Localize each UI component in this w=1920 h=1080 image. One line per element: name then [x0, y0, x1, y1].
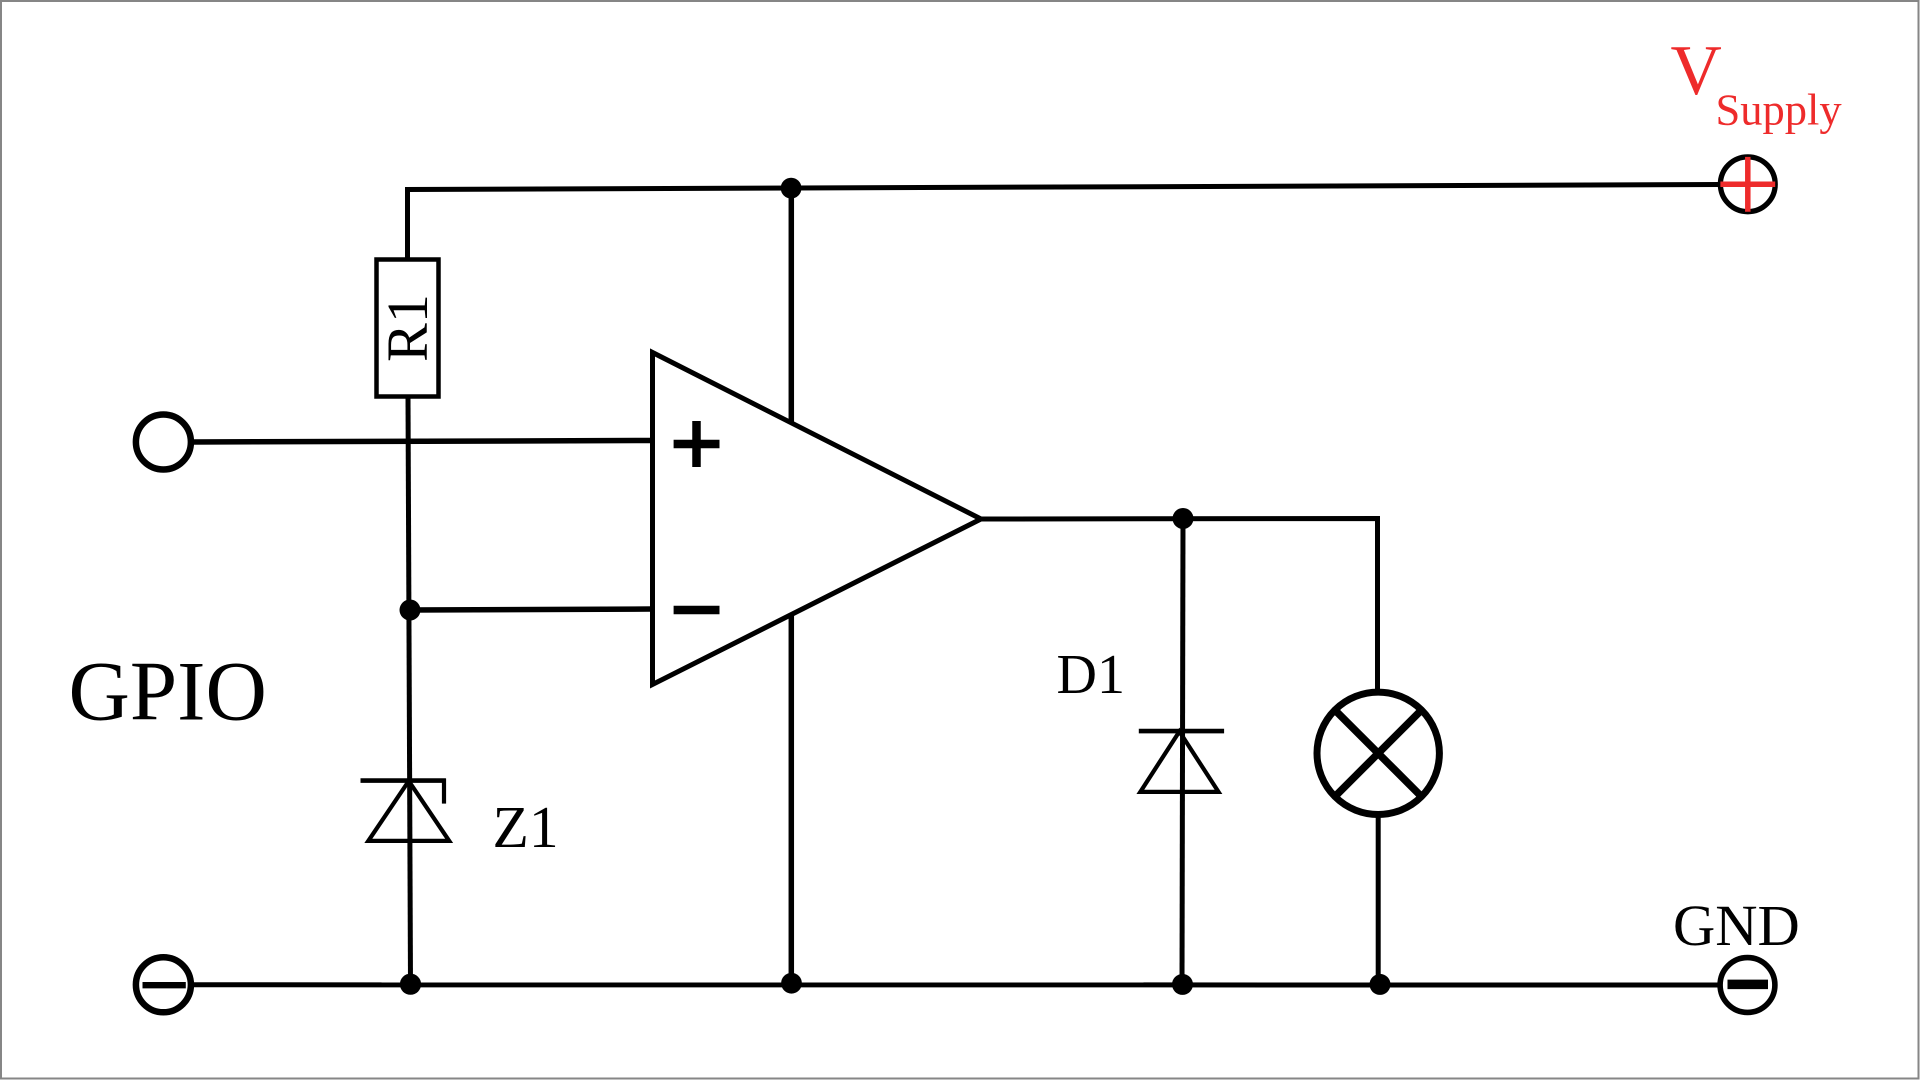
- resistor R1: [375, 260, 440, 397]
- terminal V supply: [1720, 157, 1775, 212]
- wire D1 branch: [1182, 519, 1183, 985]
- svg-text:Z1: Z1: [493, 794, 559, 860]
- svg-text:GPIO: GPIO: [69, 645, 267, 739]
- svg-text:D1: D1: [1057, 644, 1125, 706]
- lamp: [1317, 692, 1439, 814]
- svg-text:R1: R1: [375, 294, 440, 362]
- terminal GPIO plus: [136, 415, 191, 470]
- wire inverting input: [410, 609, 652, 610]
- wire top supply rail: [408, 185, 1721, 262]
- node junction opamp ground: [781, 973, 802, 994]
- svg-text:Supply: Supply: [1716, 85, 1843, 135]
- node junction inverting tap: [400, 600, 421, 621]
- wire ground rail: [192, 982, 1719, 987]
- wire lamp bottom: [1376, 816, 1381, 985]
- node junction D1 ground: [1172, 974, 1193, 995]
- wire op-amp supply rail vertical: [789, 188, 795, 984]
- wire R1 bottom to ground rail: [408, 396, 411, 985]
- node junction top rail: [781, 178, 802, 199]
- zener diode Z1: [361, 779, 450, 841]
- node junction lamp ground: [1370, 974, 1391, 995]
- op-amp U1: [653, 353, 982, 685]
- wire noninverting input: [191, 441, 653, 443]
- svg-text:GND: GND: [1673, 893, 1800, 958]
- terminal GND: [1720, 958, 1775, 1013]
- node junction output: [1173, 508, 1194, 529]
- diode D1: [1139, 731, 1224, 792]
- svg-text:V: V: [1671, 32, 1722, 110]
- node junction zener ground: [400, 974, 421, 995]
- wire op-amp output: [981, 519, 1378, 691]
- terminal GPIO minus: [136, 957, 191, 1012]
